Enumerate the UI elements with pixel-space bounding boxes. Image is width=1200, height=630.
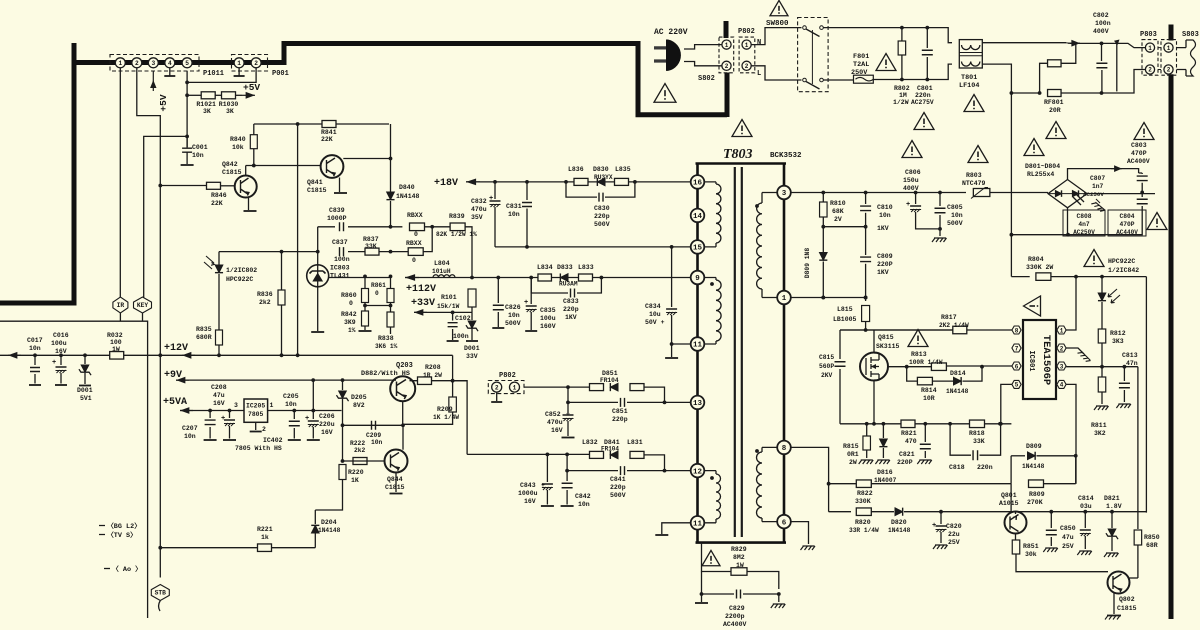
svg-text:11: 11 (693, 521, 703, 529)
svg-text:+5V: +5V (243, 82, 260, 93)
svg-text:100u: 100u (51, 340, 67, 347)
wire R1021-R1030 (216, 94, 222, 96)
wire thick ground bus left (0, 43, 110, 303)
transistor Q841 C1815 (321, 155, 344, 178)
svg-text:1: 1 (745, 42, 749, 49)
svg-text:500V: 500V (947, 220, 963, 227)
zener D205 8V2 (342, 380, 344, 390)
svg-text:1W: 1W (736, 562, 744, 569)
capacitor C832 470u 35V (494, 182, 496, 199)
svg-text:C815: C815 (819, 354, 834, 361)
transformer pin 3 (777, 186, 791, 200)
svg-text:C818: C818 (949, 464, 965, 471)
svg-text:C1815: C1815 (385, 484, 405, 491)
svg-text:C834: C834 (645, 303, 661, 310)
zener D001 33V (471, 312, 473, 320)
svg-text:R817: R817 (941, 314, 957, 321)
svg-text:2: 2 (1148, 67, 1152, 74)
svg-text:560P: 560P (819, 363, 834, 370)
label box C808 4n7 AC250V (1063, 210, 1105, 236)
svg-text:Q815: Q815 (878, 334, 894, 341)
wire pin3 rail (791, 192, 966, 194)
wire +12V rail (0, 354, 453, 356)
svg-text:2: 2 (135, 60, 139, 67)
diode D851 FR104 (610, 383, 618, 391)
diode D833 RU3AM (560, 274, 568, 282)
IC801 pin 2 (1057, 344, 1066, 352)
svg-text:150u: 150u (903, 177, 919, 184)
svg-text:C829: C829 (729, 605, 745, 612)
inductor L834 (538, 274, 552, 281)
ground P802-2 (496, 392, 498, 401)
resistor R838 3K6 1% (387, 312, 394, 327)
resistor R208 1R 2W (418, 377, 432, 385)
inductor L-box pin13 a (590, 384, 604, 391)
capacitor C835 100u 160V (530, 278, 532, 305)
wire Q203 emitter (402, 401, 404, 425)
svg-text:〈BG L2〉: 〈BG L2〉 (107, 522, 141, 531)
svg-text:D205: D205 (351, 394, 367, 401)
wire C837 line corner (317, 227, 319, 265)
svg-text:NTC479: NTC479 (962, 180, 986, 187)
svg-text:F801: F801 (853, 53, 869, 61)
transistor Q815 SK3115 MOSFET (873, 330, 875, 353)
transformer pin 14 (691, 209, 705, 223)
svg-text:D833: D833 (557, 264, 573, 271)
svg-text:470: 470 (905, 438, 917, 445)
wire thick bus right edge (1169, 25, 1174, 620)
transistor Q801 A1015 (1015, 512, 1017, 514)
svg-text:1M: 1M (899, 92, 907, 99)
transformer pin 13 (691, 396, 705, 410)
inductor L832 (590, 451, 604, 458)
svg-text:2W: 2W (849, 459, 857, 466)
transformer winding 12-11b (698, 471, 717, 523)
transformer pin 8 (777, 441, 791, 455)
svg-text:220p: 220p (563, 306, 579, 313)
svg-text:10u: 10u (649, 311, 661, 318)
svg-text:R220: R220 (348, 469, 364, 476)
capacitor C017 10n (34, 355, 36, 365)
wire KEY line from C001 node (144, 136, 187, 297)
capacitor C801 220n AC275V (926, 28, 928, 48)
svg-text:1: 1 (513, 384, 517, 391)
svg-text:220n: 220n (977, 464, 993, 471)
wire +5V node down to +12V rail (297, 124, 299, 355)
svg-text:D809: D809 (1026, 443, 1042, 450)
wire T801 N out (982, 43, 1145, 48)
svg-text:250V: 250V (851, 69, 868, 77)
svg-text:16V: 16V (524, 498, 536, 505)
svg-text:D814: D814 (950, 370, 966, 377)
svg-text:16V: 16V (551, 427, 563, 434)
capacitor C807 1n7 diag (1073, 194, 1084, 205)
svg-text:AC275V: AC275V (911, 99, 934, 106)
resistor R1021 3K (201, 92, 215, 99)
connector S802 (719, 37, 734, 73)
svg-text:AC250V: AC250V (1073, 229, 1095, 236)
svg-text:LF104: LF104 (959, 82, 979, 90)
svg-text:330K 2W: 330K 2W (1026, 264, 1053, 271)
svg-text:LB1005: LB1005 (833, 316, 857, 323)
svg-text:6: 6 (782, 519, 787, 527)
wire Q815 source (873, 380, 875, 424)
svg-text:+9V: +9V (164, 370, 182, 381)
svg-text:22u: 22u (948, 531, 960, 538)
wire IR line from pin1 (119, 68, 121, 298)
capacitor C016 100u 16V (60, 355, 62, 365)
svg-text:R851: R851 (1023, 543, 1039, 550)
svg-text:T801: T801 (961, 74, 977, 82)
svg-text:C813: C813 (1122, 352, 1138, 359)
resistor R209 1K 1/4W (452, 381, 454, 397)
svg-text:6: 6 (1015, 363, 1019, 370)
svg-text:10n: 10n (371, 439, 383, 446)
resistor R822 330K (856, 480, 871, 488)
inductor L804 101uH (433, 275, 455, 278)
resistor R836 2k2 (281, 252, 283, 290)
svg-text:C810: C810 (877, 204, 893, 211)
warning triangles right (1024, 139, 1044, 156)
wire LED node line (219, 251, 318, 253)
svg-text:+33V: +33V (411, 298, 435, 309)
svg-text:TEA1506P: TEA1506P (1040, 335, 1052, 385)
svg-text:C807: C807 (1090, 175, 1105, 182)
wire Q801 rail (1010, 484, 1012, 512)
svg-text:L835: L835 (615, 166, 631, 173)
svg-text:1: 1 (782, 295, 787, 303)
capacitor C852 470u 16V (567, 402, 569, 413)
capacitor C842 10n (566, 471, 568, 481)
svg-text:C832: C832 (471, 198, 487, 205)
svg-text:IR: IR (117, 302, 125, 309)
svg-text:1n7: 1n7 (1092, 183, 1104, 190)
svg-text:R802: R802 (894, 85, 910, 92)
svg-text:L831: L831 (627, 439, 643, 446)
svg-text:270K: 270K (1027, 499, 1043, 506)
svg-text:500V: 500V (610, 492, 626, 499)
svg-text:2k2: 2k2 (354, 447, 366, 454)
svg-text:1K 1/4W: 1K 1/4W (433, 414, 459, 421)
svg-text:3: 3 (234, 402, 238, 409)
svg-text:L: L (757, 70, 761, 78)
thermistor R803 NTC479 (973, 189, 990, 197)
svg-text:400V: 400V (903, 185, 919, 192)
resistor R842 3K9 1% (362, 311, 369, 326)
resistor R850 68R (1134, 530, 1142, 545)
IC801 pin 8 (1012, 326, 1021, 334)
svg-text:R814: R814 (921, 387, 937, 394)
svg-text:R839: R839 (449, 213, 465, 220)
capacitor C826 10n 500V (497, 278, 499, 304)
svg-text:2k2: 2k2 (259, 299, 271, 306)
svg-text:2V: 2V (834, 216, 842, 223)
resistor RBXX upper 0 (410, 223, 425, 231)
svg-text:47n: 47n (1126, 360, 1138, 367)
transistor Q844 C1815 (385, 450, 408, 473)
svg-text:1N4148: 1N4148 (946, 388, 969, 395)
svg-text:8M2: 8M2 (733, 554, 745, 561)
svg-text:C1815: C1815 (307, 187, 327, 194)
svg-text:C207: C207 (182, 425, 198, 432)
svg-text:1k: 1k (261, 534, 269, 541)
svg-text:5: 5 (1015, 382, 1019, 389)
transformer core lines (735, 167, 742, 537)
svg-text:P1011: P1011 (203, 70, 224, 78)
svg-text:1N4007: 1N4007 (874, 477, 897, 484)
resistor R032 100 1W (110, 352, 124, 360)
svg-text:C803: C803 (1131, 142, 1147, 149)
svg-text:1000P: 1000P (327, 215, 347, 222)
wire TL431 ref line (329, 277, 391, 279)
wire pin11 lower ground (662, 523, 691, 534)
svg-text:R861: R861 (371, 282, 386, 289)
capacitor C102 100n (452, 312, 454, 320)
wire R221 line (160, 547, 315, 549)
svg-text:1: 1 (270, 402, 274, 409)
resistor RF801 upper (1040, 63, 1048, 93)
svg-text:470u: 470u (471, 206, 487, 213)
svg-text:1N4148: 1N4148 (1022, 463, 1045, 470)
svg-text:1W: 1W (112, 346, 120, 353)
ground pin1 P001 (238, 68, 240, 76)
resistor R846 22K (160, 185, 206, 187)
svg-text:Q844: Q844 (387, 476, 403, 483)
svg-text:2: 2 (745, 63, 749, 70)
transformer pin 1 (777, 291, 791, 305)
svg-text:+: + (489, 195, 493, 203)
svg-text:AC 220V: AC 220V (654, 28, 688, 37)
resistor R222 2k2 (353, 458, 367, 465)
svg-text:22K: 22K (321, 136, 333, 143)
svg-text:R815: R815 (843, 443, 859, 450)
wire pin1 to R804 node (1066, 277, 1076, 330)
svg-text:0: 0 (412, 257, 416, 264)
wire pin8 drain line (967, 329, 1013, 331)
IC801 pin 4 (1057, 380, 1066, 388)
svg-text:2: 2 (495, 384, 499, 391)
svg-text:10n: 10n (508, 211, 520, 218)
svg-text:R846: R846 (211, 192, 227, 199)
wire base line Q841 (246, 165, 321, 167)
svg-text:+: + (932, 522, 936, 530)
svg-text:+: + (566, 411, 570, 418)
svg-text:C835: C835 (540, 307, 556, 314)
transistor Q842 C1815 (245, 166, 247, 177)
svg-text:C831: C831 (506, 203, 522, 210)
svg-text:30k: 30k (1025, 551, 1037, 558)
switch contacts (803, 26, 807, 30)
wire pin2 ground (1066, 348, 1084, 354)
capacitor C809 220P 1KV (865, 227, 867, 255)
wire pin13 lower C851 line (568, 387, 618, 402)
svg-text:7805 With HS: 7805 With HS (235, 445, 282, 452)
svg-text:16V: 16V (321, 429, 333, 436)
svg-text:C801: C801 (917, 85, 933, 92)
svg-text:0R1: 0R1 (847, 451, 859, 458)
svg-text:2: 2 (725, 63, 729, 70)
warning triangle R829 (702, 550, 720, 565)
wire drain node (840, 329, 953, 331)
svg-text:16V: 16V (213, 400, 225, 407)
svg-text:10k: 10k (232, 144, 244, 151)
svg-text:C809: C809 (877, 253, 893, 260)
wire Q844 base (343, 460, 385, 462)
svg-text:10n: 10n (192, 152, 204, 159)
wire pin3 node (1066, 367, 1138, 529)
svg-text:C826: C826 (505, 304, 521, 311)
svg-text:1N4148: 1N4148 (396, 193, 420, 200)
wire pin12 line L832 D841 L831 (467, 453, 589, 455)
resistor R851 30k (1015, 534, 1017, 541)
transformer pin 11 (691, 337, 705, 351)
wire RBXX to R839 (425, 226, 451, 228)
svg-text:R812: R812 (1110, 330, 1126, 337)
resistor R860 0 (364, 276, 366, 288)
wire switch out L to fuse (823, 79, 853, 81)
svg-text:220p: 220p (612, 416, 628, 423)
svg-text:25V: 25V (948, 539, 960, 546)
svg-text:L815: L815 (837, 306, 853, 313)
svg-text:8: 8 (782, 445, 787, 453)
connector S803 (1161, 40, 1177, 76)
transformer pin 11 lower (691, 516, 705, 530)
connector P803 (1142, 40, 1158, 76)
svg-text:33V: 33V (466, 353, 478, 360)
svg-text:47u: 47u (213, 392, 225, 399)
svg-text:220n: 220n (915, 92, 931, 99)
svg-text:1: 1 (1060, 327, 1064, 334)
wire thick bus P1011-P001 (199, 60, 232, 65)
AC plug (666, 40, 681, 71)
svg-text:BCK3532: BCK3532 (770, 152, 802, 160)
svg-text:+: + (52, 359, 56, 367)
connector P001 (232, 55, 268, 72)
svg-text:0: 0 (414, 231, 418, 238)
svg-text:5: 5 (185, 60, 189, 67)
wire bottom loop R829 (701, 543, 703, 568)
svg-text:C839: C839 (329, 207, 345, 214)
svg-text:1/2IC802: 1/2IC802 (226, 267, 257, 274)
svg-text:RU3AM: RU3AM (559, 281, 578, 288)
node KEY hexagon (134, 297, 152, 313)
svg-text:R032: R032 (107, 332, 123, 339)
capacitor C829 2200p AC400V (702, 589, 735, 594)
label box C804 470P AC440V (1108, 210, 1146, 236)
svg-text:C833: C833 (563, 298, 579, 305)
svg-text:C852: C852 (545, 411, 561, 418)
svg-text:14: 14 (693, 213, 703, 221)
svg-text:R809: R809 (1029, 491, 1045, 498)
svg-text:10n: 10n (29, 345, 41, 352)
inductor L815 LB1005 (865, 298, 867, 302)
resistor R837 33K (365, 248, 379, 255)
svg-text:7805: 7805 (248, 411, 264, 418)
capacitor C001 10n (186, 136, 188, 148)
resistor R829 8M2 1W (702, 568, 732, 572)
capacitor C804 470P AC440V (1141, 192, 1143, 197)
svg-text:D809 1N8: D809 1N8 (804, 248, 811, 278)
resistor R815 0R1 2W (866, 424, 868, 436)
svg-text:10n: 10n (508, 312, 520, 319)
svg-text:R837: R837 (363, 236, 379, 243)
svg-text:2: 2 (1167, 67, 1171, 74)
warning triangle above IC801 (1024, 296, 1041, 316)
svg-text:+: + (305, 415, 309, 423)
ground tilted bridge (1091, 201, 1105, 213)
warning triangles mains (914, 113, 934, 130)
svg-text:D204: D204 (321, 519, 337, 526)
svg-text:22K: 22K (211, 200, 223, 207)
wire pin4 down (1066, 384, 1076, 483)
svg-text:C814: C814 (1078, 495, 1094, 502)
inductor L835 (615, 178, 629, 185)
resistor R221 1k (258, 544, 272, 552)
svg-text:68K: 68K (832, 208, 844, 215)
svg-text:RF801: RF801 (1044, 99, 1064, 106)
svg-text:R811: R811 (1091, 422, 1107, 429)
resistor R1030 3K (222, 92, 236, 99)
svg-text:10n: 10n (951, 212, 963, 219)
svg-text:R1030: R1030 (219, 101, 239, 108)
svg-text:C017: C017 (27, 337, 43, 344)
transformer pin 12 (691, 464, 705, 478)
diode D809 1N4148 (1028, 452, 1036, 460)
wire top rail R840-R841 (254, 123, 389, 125)
svg-text:+: + (524, 299, 528, 307)
svg-text:3K: 3K (226, 108, 234, 115)
svg-text:0: 0 (375, 290, 379, 297)
arrow +5V pin3 (152, 71, 154, 91)
wire R822 line (829, 483, 1012, 485)
svg-text:8: 8 (1015, 327, 1019, 334)
svg-text:2: 2 (1060, 345, 1064, 352)
resistor RF801 lower (1048, 90, 1062, 97)
svg-text:2KV: 2KV (821, 372, 833, 379)
capacitor C209 10n (372, 421, 376, 430)
svg-text:1/2IC842: 1/2IC842 (1108, 267, 1139, 274)
svg-text:R810: R810 (830, 200, 846, 207)
optocoupler 1/2IC842 LED (1101, 277, 1103, 293)
svg-text:15k/1W: 15k/1W (437, 303, 460, 310)
svg-text:D001: D001 (77, 387, 93, 394)
svg-text:C1815: C1815 (222, 169, 242, 176)
wire Q841 emitter ground (339, 178, 341, 193)
svg-text:1KV: 1KV (877, 225, 889, 232)
svg-text:Q203: Q203 (396, 362, 413, 370)
diode D841 FR104 (610, 451, 618, 459)
transistor Q802 C1815 (1108, 572, 1130, 594)
svg-text:220p: 220p (594, 213, 610, 220)
wire Q844 collector (402, 425, 404, 449)
svg-text:RBXX: RBXX (407, 212, 423, 219)
wire fuse to T801 (873, 64, 952, 79)
svg-text:4n7: 4n7 (1078, 221, 1090, 228)
wire +5VA rail (180, 410, 244, 412)
svg-text:HPC922C: HPC922C (226, 276, 253, 283)
IC803 TL431 (307, 265, 329, 287)
capacitor C833 220p 1KV bypass (531, 278, 568, 294)
svg-text:C001: C001 (192, 144, 208, 151)
transformer winding 9-11 (698, 278, 717, 345)
svg-text:C808: C808 (1076, 213, 1091, 220)
svg-text:P802: P802 (499, 372, 516, 380)
svg-text:3: 3 (782, 190, 787, 198)
capacitor C830 220p 500V bypass loop (566, 182, 597, 197)
wire +9V rail (176, 379, 391, 381)
svg-text:7: 7 (1015, 345, 1019, 352)
svg-text:1: 1 (1167, 45, 1171, 52)
